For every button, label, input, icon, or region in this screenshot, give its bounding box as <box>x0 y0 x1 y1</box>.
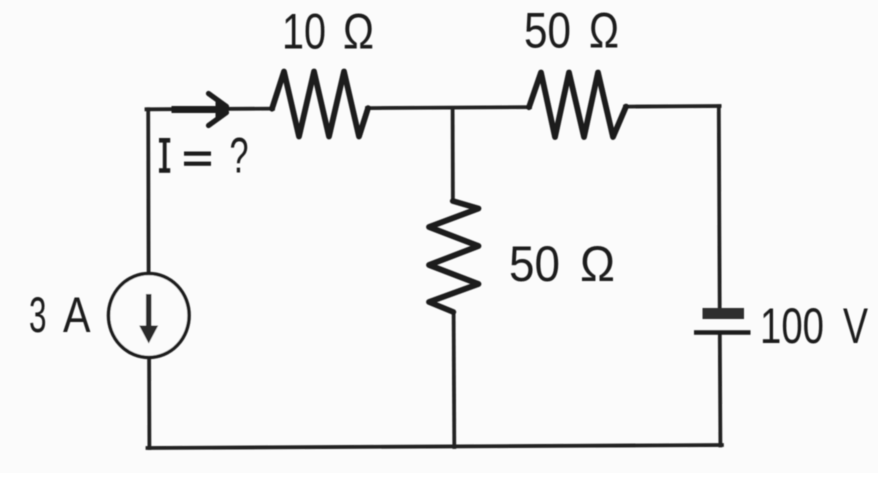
wire left rail bottom (current source to bottom corner) <box>147 357 151 448</box>
svg-text:Ω: Ω <box>580 236 615 292</box>
wire top right (R2 to right corner) <box>625 104 720 108</box>
wire top middle (R1 to node A to R2) <box>367 107 530 108</box>
svg-text:V: V <box>843 298 868 354</box>
wire right rail top (corner to battery) <box>717 106 722 309</box>
wire right rail bottom (battery to bottom corner) <box>718 333 722 446</box>
resistor R3 50 ohm (vertical zigzag) <box>429 201 479 312</box>
wire left rail top (corner to current source) <box>146 109 150 274</box>
wire middle rail bottom (R3 down to bottom wire) <box>452 312 456 447</box>
svg-text:10: 10 <box>282 4 326 60</box>
svg-text:50: 50 <box>524 3 571 59</box>
current direction arrow I <box>172 94 231 126</box>
current source CS1 (circle) <box>109 274 190 358</box>
resistor R2 50 ohm top (horizontal zigzag) <box>529 73 626 138</box>
battery V1 plate top (short thick) <box>703 308 745 319</box>
resistor R1 10 ohm (horizontal zigzag) <box>272 72 368 137</box>
svg-text:100: 100 <box>760 298 824 354</box>
wire bottom (full width) <box>148 445 722 448</box>
label I = ? (letter I with serifs) <box>159 138 211 173</box>
wire middle rail top (node A down to resistor R3) <box>451 109 455 202</box>
svg-text:A: A <box>63 287 91 343</box>
battery V1 plate bottom (long thin) <box>694 330 751 335</box>
wire top left (corner to resistor R1) <box>147 107 274 112</box>
svg-text:?: ? <box>230 128 249 184</box>
current source arrow (down) <box>139 294 158 344</box>
svg-text:Ω: Ω <box>343 4 374 60</box>
svg-text:3: 3 <box>29 287 47 343</box>
svg-text:Ω: Ω <box>589 3 619 59</box>
svg-text:50: 50 <box>509 236 560 292</box>
